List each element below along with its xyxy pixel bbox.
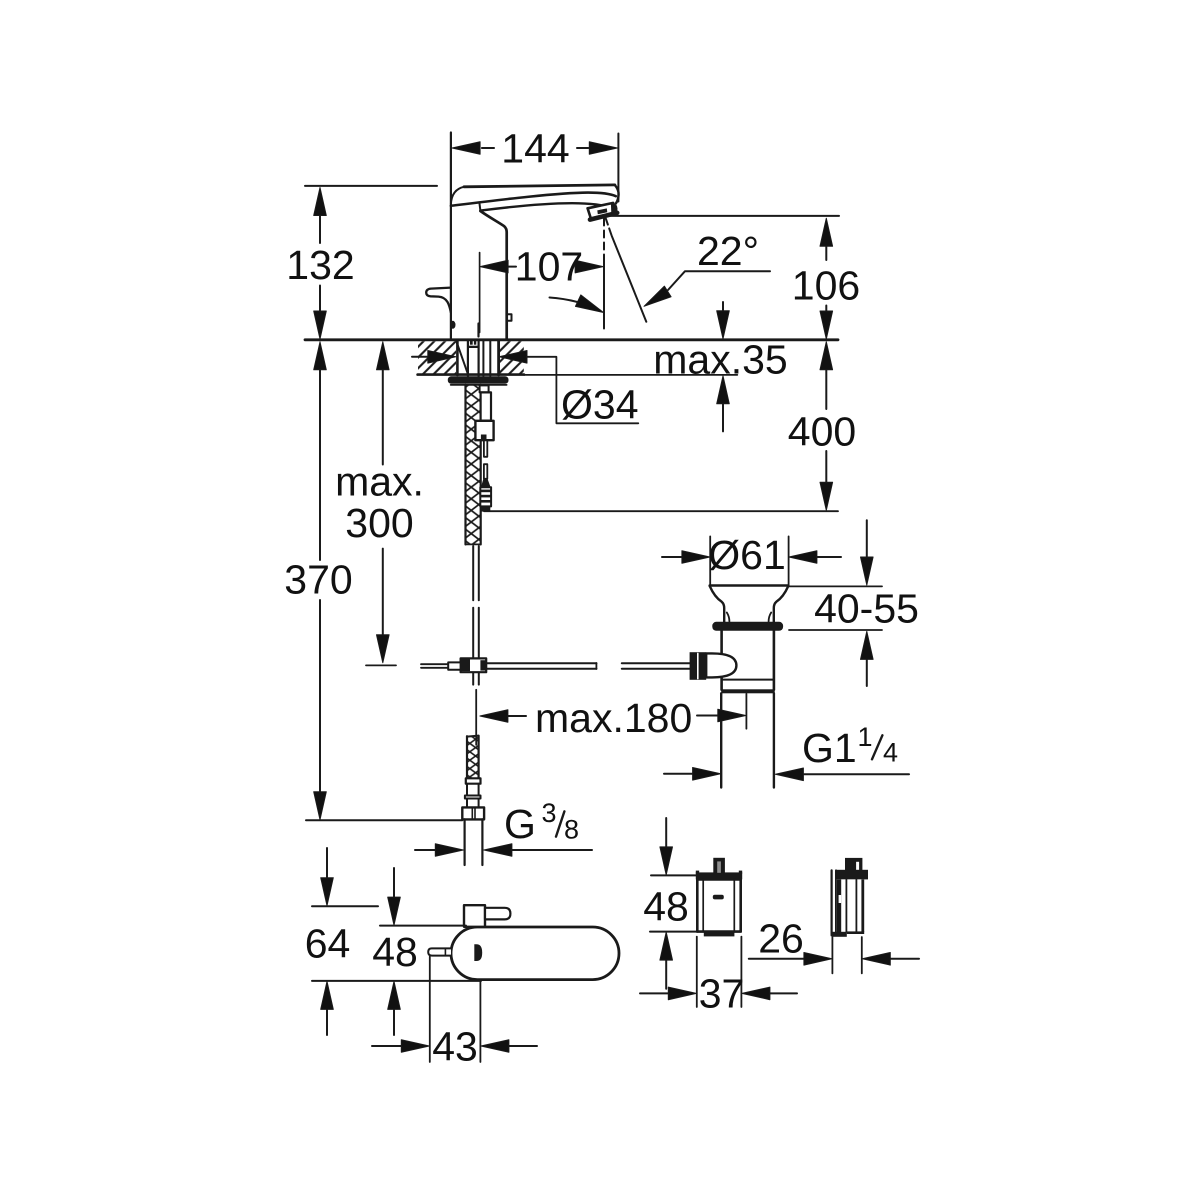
svg-text:106: 106 (792, 263, 860, 309)
tee junction block (461, 658, 487, 672)
pull rod upper segment (472, 546, 474, 600)
step ring (465, 796, 481, 799)
svg-text:22°: 22° (697, 228, 759, 274)
cable conduit lines (482, 340, 484, 376)
dimension 400 (825, 370, 827, 483)
pull rod lower segment (472, 608, 474, 659)
sensor cable fitting 1 (480, 385, 489, 392)
aerator outlet slot (597, 208, 607, 214)
countertop hatch right (500, 341, 524, 374)
top view sensor slot (474, 944, 482, 961)
svg-text:Ø34: Ø34 (561, 382, 639, 428)
dimension 144 (482, 147, 589, 149)
sensor 22 degree line (606, 218, 612, 236)
control unit bottom bar (704, 932, 735, 936)
locknut washer (448, 376, 509, 384)
drain flange left side (710, 586, 725, 622)
control unit body (697, 879, 740, 931)
hole right wall (497, 340, 500, 375)
control unit nipple (713, 858, 725, 873)
dimension 64 (312, 848, 481, 1035)
top view lever (485, 908, 510, 920)
svg-text:3: 3 (541, 798, 556, 828)
G3/8 threaded rod (467, 737, 478, 778)
indicator dot (450, 321, 455, 329)
svg-text:G1: G1 (802, 725, 857, 771)
dimension max.35 (722, 302, 724, 431)
dimension 48 right (650, 818, 698, 989)
base front line (477, 324, 479, 337)
svg-text:max.35: max.35 (653, 337, 787, 383)
faucet top back corner arc (451, 187, 464, 204)
faucet spout back step (479, 203, 480, 211)
svg-text:132: 132 (286, 242, 354, 288)
22 degree leader (668, 271, 770, 290)
aerator housing (588, 203, 617, 219)
drain body (720, 631, 723, 690)
dimension 26 (749, 937, 919, 973)
dimension max.300 (366, 370, 396, 666)
left stub rod (421, 663, 448, 665)
svg-text:max.: max. (335, 459, 424, 505)
drain tailpipe (720, 693, 722, 787)
svg-text:max.180: max.180 (535, 695, 692, 741)
svg-text:400: 400 (788, 409, 856, 455)
faucet back edge with 144 extension (450, 133, 452, 339)
connection nut (462, 807, 484, 819)
front button (507, 314, 512, 321)
shank right edge (478, 340, 480, 376)
side view bottom tab (832, 932, 847, 937)
countertop bottom line (418, 373, 524, 376)
svg-text:43: 43 (432, 1024, 478, 1070)
drain flange top (710, 584, 789, 587)
dimension 40-55 (789, 520, 882, 686)
drain side outlet (690, 652, 707, 680)
dimension 43 (372, 957, 537, 1063)
svg-text:1: 1 (857, 722, 872, 752)
o-ring seal (712, 622, 783, 631)
cable plug connector (481, 479, 491, 487)
svg-text:Ø61: Ø61 (708, 532, 786, 578)
dimension diameter 34 (412, 356, 428, 358)
dimension 48 left (380, 868, 466, 1035)
faucet tip face (615, 185, 619, 204)
svg-text:37: 37 (699, 971, 745, 1017)
dimension max.180 (476, 690, 746, 745)
G3/8 pipe end (464, 819, 466, 865)
max.35 lower reference line (524, 374, 737, 376)
countertop top line (305, 338, 838, 341)
svg-text:64: 64 (305, 921, 351, 967)
mounting stud diagonal (456, 341, 468, 375)
sensor cable fitting 2 (481, 392, 491, 420)
svg-text:48: 48 (372, 929, 418, 975)
drain flange right side (774, 586, 789, 622)
144 right extension line (617, 134, 619, 202)
dimension 132 (305, 186, 437, 312)
coupler band (466, 778, 481, 783)
dimension 106 (607, 216, 839, 312)
braided supply hose (466, 385, 480, 544)
dimension 370 (306, 370, 462, 821)
flange inner arcs (727, 613, 730, 622)
G1 1/4 fraction slash (872, 735, 882, 759)
svg-text:48: 48 (643, 884, 689, 930)
svg-text:40-55: 40-55 (814, 586, 919, 632)
pull rod below junction (472, 672, 474, 684)
countertop hatch left (418, 341, 456, 374)
faucet spout upper crease (451, 193, 616, 206)
svg-text:G: G (504, 801, 536, 847)
aerator end cap (611, 203, 618, 214)
angle arc (550, 298, 601, 311)
sensor cable nut (475, 421, 493, 440)
top view capsule body (451, 927, 619, 980)
control unit logo (713, 895, 724, 900)
hole left wall (456, 340, 459, 375)
svg-text:4: 4 (883, 738, 898, 768)
svg-text:144: 144 (501, 126, 569, 172)
faucet spout lower crease (480, 203, 612, 210)
side view nipple (845, 858, 862, 876)
dimension 107 (479, 253, 481, 333)
G3/8 fraction slash (556, 811, 564, 836)
control unit front view top bar (696, 872, 742, 879)
dimension 37 (640, 937, 797, 1007)
water stream dash-dot line (603, 219, 605, 258)
control unit side view left wall (830, 870, 832, 935)
shank left edge (467, 340, 469, 376)
dimension diameter 61 (662, 536, 841, 585)
faucet neck and front edge (480, 211, 506, 339)
svg-text:8: 8 (564, 815, 579, 845)
cable rod segments (484, 440, 487, 456)
faucet spout top edge (464, 185, 615, 187)
svg-text:300: 300 (345, 500, 413, 546)
dimension G3/8 (415, 849, 592, 851)
svg-text:370: 370 (284, 557, 352, 603)
side view body (836, 879, 864, 932)
svg-text:107: 107 (515, 244, 583, 290)
horizontal rod to drain (486, 662, 596, 664)
top view side tube (428, 948, 451, 955)
svg-text:26: 26 (758, 916, 804, 962)
shank thread marks (470, 341, 473, 345)
plain rod segment (466, 784, 468, 796)
aerator bottom lip (590, 213, 617, 220)
temperature lever (426, 288, 451, 313)
top view mixer fitting (464, 905, 485, 927)
dimension G1 1/4 (664, 773, 909, 776)
cable length reference line 400 (484, 510, 838, 512)
side view top band (836, 870, 868, 880)
